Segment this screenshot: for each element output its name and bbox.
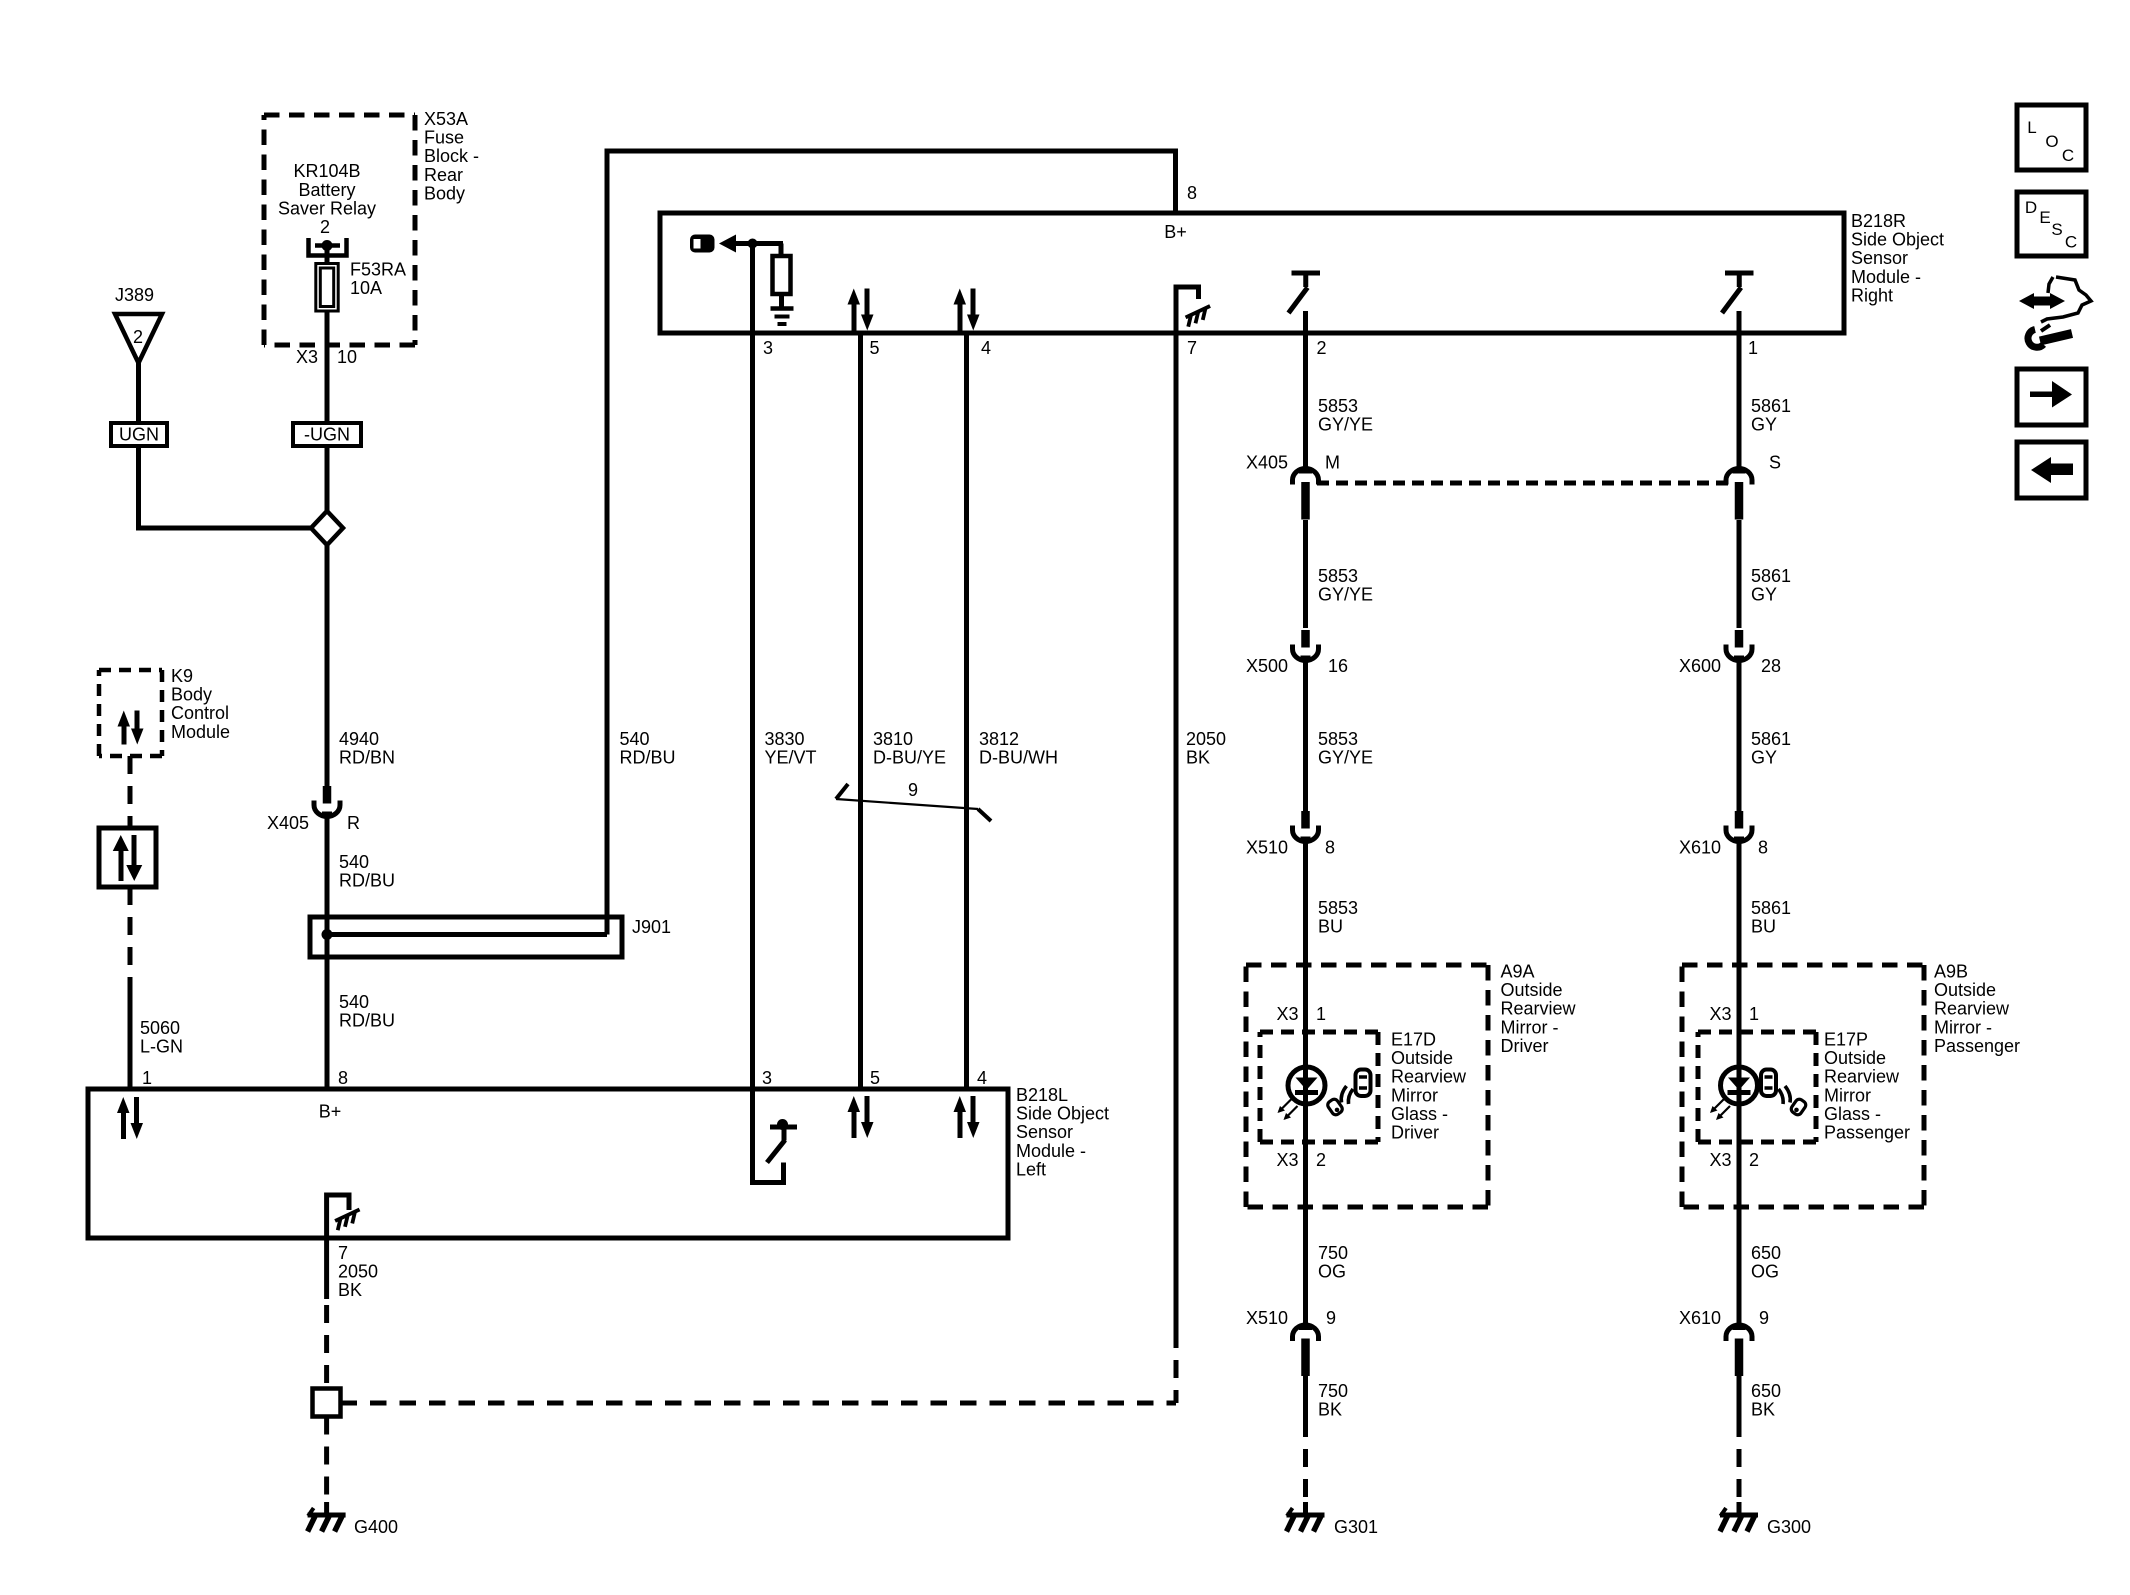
svg-text:G300: G300 <box>1767 1517 1811 1537</box>
svg-text:E17D: E17D <box>1391 1030 1436 1050</box>
svg-text:X610: X610 <box>1679 838 1721 858</box>
svg-text:GY: GY <box>1751 585 1777 605</box>
svg-text:Rearview: Rearview <box>1391 1067 1467 1087</box>
svg-text:Passenger: Passenger <box>1934 1036 2020 1056</box>
svg-text:X510: X510 <box>1246 838 1288 858</box>
svg-text:B+: B+ <box>319 1102 342 1122</box>
svg-text:5861: 5861 <box>1751 729 1791 749</box>
svg-text:S: S <box>1769 453 1781 473</box>
svg-text:2: 2 <box>1316 1150 1326 1170</box>
svg-text:3: 3 <box>762 1068 772 1088</box>
svg-text:8: 8 <box>1187 183 1197 203</box>
svg-text:750: 750 <box>1318 1243 1348 1263</box>
svg-text:X3: X3 <box>1276 1004 1298 1024</box>
svg-text:BK: BK <box>1186 748 1210 768</box>
svg-text:1: 1 <box>142 1068 152 1088</box>
svg-text:X510: X510 <box>1246 1308 1288 1328</box>
svg-text:1: 1 <box>1749 1004 1759 1024</box>
svg-text:X53A: X53A <box>424 109 468 129</box>
svg-text:-UGN: -UGN <box>304 425 350 445</box>
svg-text:9: 9 <box>1326 1308 1336 1328</box>
svg-text:3: 3 <box>763 338 773 358</box>
svg-text:Module: Module <box>171 722 230 742</box>
svg-text:E: E <box>2039 208 2050 227</box>
svg-text:Glass -: Glass - <box>1824 1104 1881 1124</box>
svg-text:B218R: B218R <box>1851 211 1906 231</box>
svg-text:X3: X3 <box>1276 1150 1298 1170</box>
svg-text:540: 540 <box>339 852 369 872</box>
svg-text:S: S <box>2051 220 2062 239</box>
svg-text:E17P: E17P <box>1824 1030 1868 1050</box>
svg-text:10A: 10A <box>350 278 382 298</box>
svg-text:X500: X500 <box>1246 656 1288 676</box>
svg-text:F53RA: F53RA <box>350 260 406 280</box>
svg-text:X610: X610 <box>1679 1308 1721 1328</box>
svg-text:Fuse: Fuse <box>424 128 464 148</box>
svg-text:KR104B: KR104B <box>293 161 360 181</box>
svg-text:L-GN: L-GN <box>140 1037 183 1057</box>
svg-text:Battery: Battery <box>298 180 355 200</box>
svg-text:Left: Left <box>1016 1159 1046 1179</box>
svg-text:Side Object: Side Object <box>1851 230 1944 250</box>
svg-text:3810: 3810 <box>873 729 913 749</box>
svg-text:Sensor: Sensor <box>1851 248 1908 268</box>
svg-text:5060: 5060 <box>140 1018 180 1038</box>
svg-text:16: 16 <box>1328 656 1348 676</box>
svg-text:X3: X3 <box>1709 1150 1731 1170</box>
svg-text:Rearview: Rearview <box>1501 999 1577 1019</box>
svg-text:O: O <box>2045 132 2058 151</box>
svg-text:5861: 5861 <box>1751 566 1791 586</box>
svg-text:R: R <box>347 813 360 833</box>
svg-text:C: C <box>2062 146 2074 165</box>
svg-text:Passenger: Passenger <box>1824 1123 1910 1143</box>
svg-text:X3: X3 <box>1709 1004 1731 1024</box>
svg-text:Right: Right <box>1851 285 1893 305</box>
svg-text:5861: 5861 <box>1751 396 1791 416</box>
svg-text:750: 750 <box>1318 1381 1348 1401</box>
svg-text:7: 7 <box>1187 338 1197 358</box>
svg-text:RD/BU: RD/BU <box>339 871 395 891</box>
svg-text:Outside: Outside <box>1501 980 1563 1000</box>
svg-text:7: 7 <box>338 1243 348 1263</box>
svg-text:Sensor: Sensor <box>1016 1122 1073 1142</box>
svg-text:Side Object: Side Object <box>1016 1104 1109 1124</box>
svg-text:M: M <box>1325 453 1340 473</box>
svg-text:BK: BK <box>1751 1400 1775 1420</box>
svg-text:BU: BU <box>1318 917 1343 937</box>
svg-text:D: D <box>2025 198 2037 217</box>
svg-text:X405: X405 <box>267 813 309 833</box>
svg-text:3830: 3830 <box>765 729 805 749</box>
svg-text:GY: GY <box>1751 415 1777 435</box>
svg-text:1: 1 <box>1748 338 1758 358</box>
svg-text:X405: X405 <box>1246 453 1288 473</box>
svg-text:Outside: Outside <box>1934 980 1996 1000</box>
svg-text:2: 2 <box>1749 1150 1759 1170</box>
svg-text:G400: G400 <box>354 1517 398 1537</box>
svg-text:Block -: Block - <box>424 146 479 166</box>
svg-text:X3: X3 <box>296 347 318 367</box>
svg-text:L: L <box>2027 118 2036 137</box>
svg-text:Body: Body <box>171 685 212 705</box>
svg-text:5: 5 <box>870 1068 880 1088</box>
svg-text:2050: 2050 <box>1186 729 1226 749</box>
svg-text:Mirror -: Mirror - <box>1501 1017 1559 1037</box>
svg-text:5853: 5853 <box>1318 396 1358 416</box>
svg-text:K9: K9 <box>171 666 193 686</box>
svg-text:GY/YE: GY/YE <box>1318 585 1373 605</box>
svg-text:4940: 4940 <box>339 729 379 749</box>
svg-text:GY: GY <box>1751 748 1777 768</box>
svg-text:28: 28 <box>1761 656 1781 676</box>
svg-text:D-BU/WH: D-BU/WH <box>979 748 1058 768</box>
svg-text:5: 5 <box>870 338 880 358</box>
svg-text:RD/BU: RD/BU <box>620 748 676 768</box>
svg-text:BU: BU <box>1751 917 1776 937</box>
svg-text:Mirror: Mirror <box>1824 1085 1871 1105</box>
svg-text:Control: Control <box>171 703 229 723</box>
svg-text:Rear: Rear <box>424 165 463 185</box>
svg-text:2: 2 <box>1317 338 1327 358</box>
svg-text:UGN: UGN <box>119 425 159 445</box>
svg-text:C: C <box>2065 233 2077 252</box>
svg-text:Mirror: Mirror <box>1391 1085 1438 1105</box>
svg-text:GY/YE: GY/YE <box>1318 415 1373 435</box>
svg-text:Glass -: Glass - <box>1391 1104 1448 1124</box>
svg-text:Saver Relay: Saver Relay <box>278 198 376 218</box>
svg-text:8: 8 <box>1758 838 1768 858</box>
svg-text:Mirror -: Mirror - <box>1934 1017 1992 1037</box>
svg-text:1: 1 <box>1316 1004 1326 1024</box>
svg-text:Outside: Outside <box>1824 1048 1886 1068</box>
svg-text:5853: 5853 <box>1318 566 1358 586</box>
svg-text:Rearview: Rearview <box>1934 999 2010 1019</box>
svg-text:Module -: Module - <box>1851 267 1921 287</box>
svg-text:OG: OG <box>1318 1262 1346 1282</box>
svg-text:Module -: Module - <box>1016 1141 1086 1161</box>
svg-text:BK: BK <box>338 1280 362 1300</box>
svg-text:8: 8 <box>1325 838 1335 858</box>
svg-text:D-BU/YE: D-BU/YE <box>873 748 946 768</box>
svg-text:B218L: B218L <box>1016 1085 1068 1105</box>
svg-text:RD/BN: RD/BN <box>339 748 395 768</box>
svg-text:GY/YE: GY/YE <box>1318 748 1373 768</box>
svg-text:540: 540 <box>620 729 650 749</box>
svg-text:9: 9 <box>908 780 918 800</box>
svg-text:2: 2 <box>320 217 330 237</box>
svg-text:3812: 3812 <box>979 729 1019 749</box>
svg-text:J389: J389 <box>115 285 154 305</box>
svg-text:10: 10 <box>337 347 357 367</box>
svg-text:X600: X600 <box>1679 656 1721 676</box>
svg-text:G301: G301 <box>1334 1517 1378 1537</box>
svg-text:2050: 2050 <box>338 1262 378 1282</box>
svg-text:5853: 5853 <box>1318 729 1358 749</box>
svg-text:2: 2 <box>133 327 143 347</box>
svg-text:Driver: Driver <box>1391 1123 1439 1143</box>
svg-text:A9B: A9B <box>1934 962 1968 982</box>
svg-text:Body: Body <box>424 183 465 203</box>
svg-text:B+: B+ <box>1164 222 1187 242</box>
svg-text:Rearview: Rearview <box>1824 1067 1900 1087</box>
svg-text:J901: J901 <box>632 917 671 937</box>
svg-text:Outside: Outside <box>1391 1048 1453 1068</box>
svg-text:8: 8 <box>338 1068 348 1088</box>
svg-text:A9A: A9A <box>1501 962 1535 982</box>
svg-text:5853: 5853 <box>1318 898 1358 918</box>
svg-text:YE/VT: YE/VT <box>765 748 817 768</box>
svg-text:650: 650 <box>1751 1381 1781 1401</box>
svg-text:4: 4 <box>977 1068 987 1088</box>
svg-text:540: 540 <box>339 992 369 1012</box>
svg-text:Driver: Driver <box>1501 1036 1549 1056</box>
svg-text:5861: 5861 <box>1751 898 1791 918</box>
svg-text:9: 9 <box>1759 1308 1769 1328</box>
svg-text:BK: BK <box>1318 1400 1342 1420</box>
svg-text:650: 650 <box>1751 1243 1781 1263</box>
svg-text:OG: OG <box>1751 1262 1779 1282</box>
svg-text:RD/BU: RD/BU <box>339 1011 395 1031</box>
svg-text:4: 4 <box>981 338 991 358</box>
